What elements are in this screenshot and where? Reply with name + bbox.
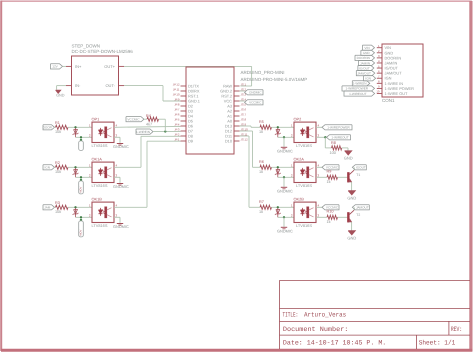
svg-text:OK2A: OK2A — [294, 156, 305, 161]
svg-text:1-WIRE OUT: 1-WIRE OUT — [385, 91, 409, 96]
svg-text:Document Number:: Document Number: — [283, 326, 349, 333]
svg-text:OK2B: OK2B — [294, 196, 305, 201]
svg-text:REV:: REV: — [451, 326, 462, 333]
svg-text:CON1: CON1 — [382, 98, 395, 103]
svg-text:GND: GND — [363, 51, 371, 55]
svg-text:R8: R8 — [331, 141, 336, 145]
svg-text:1k: 1k — [327, 180, 331, 184]
svg-text:JS.7: JS.7 — [241, 113, 247, 117]
svg-text:D10: D10 — [225, 139, 233, 144]
svg-text:VIN: VIN — [364, 46, 369, 50]
svg-text:GND: GND — [344, 155, 353, 160]
svg-text:JS.6: JS.6 — [241, 108, 247, 112]
svg-text:GND: GND — [347, 195, 356, 200]
svg-text:10k: 10k — [55, 210, 61, 214]
svg-text:R2: R2 — [55, 161, 60, 165]
svg-text:ARDUINO-PRO-MINI-5.0V/16MP: ARDUINO-PRO-MINI-5.0V/16MP — [241, 77, 308, 82]
svg-text:JP.6: JP.6 — [174, 113, 180, 117]
svg-text:LTV816S: LTV816S — [92, 143, 108, 148]
svg-text:GND: GND — [347, 235, 356, 240]
svg-text:DOOR: DOOR — [43, 126, 53, 130]
svg-text:R6: R6 — [259, 160, 264, 164]
svg-text:ARDUINO_PRO-MINI: ARDUINO_PRO-MINI — [241, 70, 285, 75]
svg-text:VCCMIC: VCCMIC — [249, 101, 262, 105]
svg-text:IN-: IN- — [75, 83, 81, 88]
svg-text:R9: R9 — [327, 170, 332, 174]
svg-text:1-WIREIN: 1-WIREIN — [353, 82, 367, 86]
svg-text:R3: R3 — [55, 201, 60, 205]
svg-text:IN+: IN+ — [75, 64, 82, 69]
svg-text:MOV: MOV — [80, 230, 83, 236]
svg-text:Arturo_Veras: Arturo_Veras — [304, 312, 346, 319]
svg-text:LTV816S: LTV816S — [296, 183, 312, 188]
svg-text:1-WIREPOWER: 1-WIREPOWER — [327, 126, 350, 130]
svg-text:IGN: IGN — [365, 77, 371, 81]
svg-text:D9: D9 — [188, 139, 193, 144]
svg-text:R10: R10 — [327, 210, 334, 214]
svg-text:JP.11: JP.11 — [173, 88, 180, 92]
svg-text:T2: T2 — [356, 213, 360, 217]
svg-text:GNDMIC: GNDMIC — [277, 189, 293, 194]
svg-text:JAM/OUT: JAM/OUT — [357, 71, 371, 75]
svg-text:R5: R5 — [259, 120, 264, 124]
svg-text:MOV: MOV — [80, 187, 83, 193]
svg-text:OUT+: OUT+ — [104, 64, 115, 69]
svg-text:STEP_DOWN: STEP_DOWN — [72, 44, 101, 49]
svg-text:GND: GND — [56, 94, 65, 98]
svg-text:Date: 14-10-17 10:45 P. M.: Date: 14-10-17 10:45 P. M. — [283, 340, 386, 347]
svg-text:GNDMIC: GNDMIC — [249, 91, 262, 95]
svg-text:10k: 10k — [55, 130, 61, 134]
svg-text:1-WIREOUT: 1-WIREOUT — [349, 92, 366, 96]
svg-text:JS.12: JS.12 — [241, 138, 249, 142]
svg-text:R7: R7 — [259, 200, 264, 204]
svg-text:JP.5: JP.5 — [174, 118, 180, 122]
svg-text:JAMOUT: JAMOUT — [356, 206, 369, 210]
svg-text:T1: T1 — [356, 173, 360, 177]
svg-text:IGOUT: IGOUT — [356, 166, 366, 170]
svg-text:4k7: 4k7 — [146, 123, 152, 127]
svg-text:1-WIREIN: 1-WIREIN — [136, 130, 150, 134]
svg-text:OK1B: OK1B — [92, 196, 103, 201]
svg-text:1-WIREOUT: 1-WIREOUT — [331, 136, 348, 140]
svg-text:JP.7: JP.7 — [174, 108, 180, 112]
svg-text:JP.10: JP.10 — [173, 93, 180, 97]
svg-text:VCCMIC: VCCMIC — [127, 118, 140, 122]
svg-text:JS.1: JS.1 — [241, 83, 247, 87]
svg-text:DC-DC-STEP-DOWN-LM2596: DC-DC-STEP-DOWN-LM2596 — [72, 49, 134, 54]
svg-text:TITLE:: TITLE: — [283, 312, 299, 319]
svg-text:R1: R1 — [55, 121, 60, 125]
svg-text:OK1A: OK1A — [92, 156, 103, 161]
svg-text:1k: 1k — [259, 210, 263, 214]
svg-text:LTV816S: LTV816S — [92, 223, 108, 228]
svg-text:1k: 1k — [259, 130, 263, 134]
svg-text:1k: 1k — [327, 220, 331, 224]
svg-text:10k: 10k — [55, 170, 61, 174]
svg-text:1-WIREPOWER: 1-WIREPOWER — [345, 87, 368, 91]
svg-text:JAM: JAM — [44, 206, 51, 210]
svg-text:GNDMIC: GNDMIC — [277, 149, 293, 154]
svg-text:JP.8: JP.8 — [174, 103, 180, 107]
svg-text:1k: 1k — [259, 170, 263, 174]
svg-text:DOOR/IN: DOOR/IN — [357, 56, 370, 60]
svg-text:100: 100 — [330, 151, 336, 155]
svg-text:LTV816S: LTV816S — [296, 143, 312, 148]
svg-text:OP1: OP1 — [92, 116, 100, 121]
svg-text:JP.9: JP.9 — [174, 98, 180, 102]
svg-text:JS.8: JS.8 — [241, 118, 247, 122]
svg-text:LTV816S: LTV816S — [296, 223, 312, 228]
svg-text:OP2: OP2 — [294, 116, 302, 121]
svg-text:Sheet: 1/1: Sheet: 1/1 — [419, 340, 456, 347]
svg-text:JP.12: JP.12 — [173, 83, 180, 87]
svg-text:IGN: IGN — [44, 166, 50, 170]
svg-text:JAM/IN: JAM/IN — [360, 61, 370, 65]
svg-text:OUT-: OUT- — [105, 83, 115, 88]
svg-text:LTV816S: LTV816S — [92, 183, 108, 188]
svg-text:GNDMIC: GNDMIC — [277, 229, 293, 234]
svg-text:12V: 12V — [52, 65, 58, 69]
svg-text:10: 10 — [376, 90, 380, 94]
svg-text:IG/OUT: IG/OUT — [359, 66, 370, 70]
